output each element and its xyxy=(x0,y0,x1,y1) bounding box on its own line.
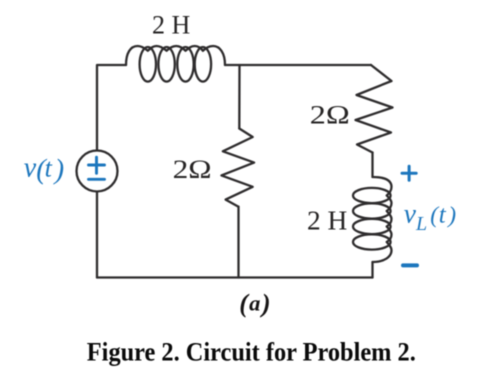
resistor right 2Ω xyxy=(356,65,393,153)
svg-text:Figure 2. Circuit for Problem: Figure 2. Circuit for Problem 2. xyxy=(87,336,416,366)
plus label at inductor top right xyxy=(402,166,416,180)
wire bottom horizontal xyxy=(97,276,373,278)
voltage source V1 circle xyxy=(77,151,118,192)
wire top between inductor and right resistor xyxy=(225,64,371,66)
svg-text:v: v xyxy=(404,198,417,229)
wire middle branch top lead xyxy=(238,65,240,129)
svg-text:(a): (a) xyxy=(239,289,270,318)
wire left vertical bottom segment xyxy=(96,191,98,277)
svg-text:): ) xyxy=(53,155,65,186)
svg-text:L: L xyxy=(415,213,427,235)
minus label at inductor bottom right xyxy=(403,263,417,267)
wire right branch bottom lead xyxy=(371,262,373,278)
svg-text:t: t xyxy=(45,154,53,183)
wire right branch lead between resistor and inductor xyxy=(371,153,373,178)
voltage source minus bar xyxy=(89,178,105,181)
svg-text:): ) xyxy=(446,202,456,228)
svg-text:2Ω: 2Ω xyxy=(173,155,212,184)
svg-text:2Ω: 2Ω xyxy=(310,100,350,130)
svg-text:2 H: 2 H xyxy=(307,206,347,236)
resistor middle 2Ω xyxy=(221,129,254,207)
voltage source plus sign xyxy=(89,157,418,265)
svg-text:t: t xyxy=(439,202,447,229)
inductor right 2 H xyxy=(353,177,392,262)
svg-text:2 H: 2 H xyxy=(152,10,190,40)
wire left vertical top segment xyxy=(97,65,126,151)
svg-text:v: v xyxy=(24,153,37,184)
inductor L top 2 H xyxy=(126,46,225,82)
wire middle branch bottom lead xyxy=(237,207,239,278)
